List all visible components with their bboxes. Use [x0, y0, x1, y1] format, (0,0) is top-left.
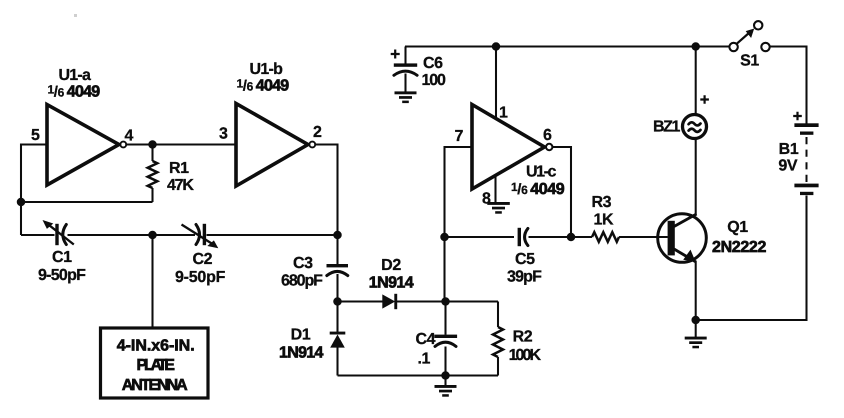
svg-text:C3: C3 [293, 255, 313, 272]
ground below C6 [395, 91, 417, 103]
battery B1 [793, 112, 818, 195]
svg-text:7: 7 [455, 128, 464, 145]
svg-text:1: 1 [499, 105, 508, 122]
wire top supply rail [405, 45, 729, 47]
svg-text:C2: C2 [193, 251, 213, 268]
wire left column pin5 down to C1 row [20, 144, 22, 236]
wire bottom row D1 to R2 [338, 374, 499, 376]
transistor Q1 2N2222 [658, 214, 707, 263]
wire Q1 emitter down [695, 261, 697, 320]
svg-text:5: 5 [31, 127, 40, 144]
node rail pin1 junction [492, 42, 501, 51]
wire U1-c pin7 branch [445, 147, 473, 302]
wire U1-c pin8 stem [494, 175, 496, 203]
svg-text:4-IN.x6-IN.: 4-IN.x6-IN. [117, 338, 195, 355]
wire Q1 ground stem [695, 320, 697, 337]
svg-text:S1: S1 [740, 53, 759, 70]
wire C4 ground stem [444, 376, 446, 386]
label C6 100 [422, 55, 447, 89]
svg-text:9-50pF: 9-50pF [175, 269, 226, 286]
wire R2 branch bottom [497, 357, 499, 376]
svg-text:U1-a: U1-a [59, 67, 92, 84]
svg-text:B1: B1 [779, 141, 799, 158]
svg-text:4: 4 [125, 128, 134, 145]
wire D2 row left [338, 300, 383, 302]
wire U1-a pin5 input [21, 143, 47, 145]
node C4 ground junction [441, 371, 450, 380]
label U1-c [511, 164, 565, 199]
label B1 9V [778, 141, 798, 175]
wire D1 column upper [336, 302, 338, 333]
speck artifact [74, 14, 77, 17]
capacitor C4 [434, 335, 457, 347]
capacitor C3 [327, 264, 349, 276]
label U1-b [237, 61, 290, 95]
wire R2 branch top [497, 302, 499, 328]
node C5 pin7 junction [440, 233, 449, 242]
ground below Q1 emitter [685, 337, 707, 349]
wire BZ1 to Q1 collector [695, 139, 697, 215]
node antenna tap junction [148, 231, 157, 240]
svg-text:1N914: 1N914 [369, 274, 414, 291]
node C2 C3 junction [333, 231, 342, 240]
wire C1 C2 row segment left [21, 234, 55, 236]
label R3 1K [592, 194, 614, 228]
wire R3 right lead to Q1 base [619, 236, 668, 238]
wire C2 row segment right [207, 234, 338, 236]
wire emitter ground row to battery bottom [696, 196, 807, 321]
node D2 C4 junction [441, 297, 450, 306]
wire U1-a output to U1-b input [127, 143, 236, 145]
label R1 47K [167, 160, 194, 194]
svg-text:1/6 4049: 1/6 4049 [511, 180, 565, 198]
wire antenna drop [151, 235, 153, 328]
resistor R2 [493, 327, 503, 357]
node D1 D2 junction [333, 297, 342, 306]
op-amp U1-b inverter triangle [236, 104, 315, 187]
node emitter ground junction [691, 316, 700, 325]
wire U1-c pin1 drop from rail [495, 47, 497, 121]
svg-text:R1: R1 [169, 160, 189, 177]
capacitor C1 variable [43, 220, 74, 245]
capacitor C6 electrolytic [391, 47, 417, 93]
svg-text:6: 6 [543, 127, 552, 144]
wire D2 row right to R2 top [396, 300, 499, 302]
svg-text:1/6 4049: 1/6 4049 [237, 77, 290, 95]
wire D1 column lower [336, 347, 338, 376]
label C4 .1 [416, 331, 436, 368]
svg-text:8: 8 [482, 191, 491, 208]
wire feedback row R1 bottom to left column [21, 201, 153, 203]
label C1 9-50pF [38, 249, 86, 284]
svg-text:R2: R2 [513, 329, 533, 346]
diode D1 1N914 [330, 332, 346, 348]
label C5 39pF [507, 251, 542, 286]
label D2 1N914 [369, 257, 414, 291]
svg-text:U1-c: U1-c [526, 164, 557, 181]
label C3 680pF [281, 255, 323, 290]
resistor R3 [592, 232, 619, 242]
capacitor C2 variable [182, 224, 219, 249]
svg-text:1/6 4049: 1/6 4049 [48, 83, 101, 101]
label D1 1N914 [279, 327, 324, 362]
wire U1-b output to drop column [316, 145, 338, 236]
wire C4 column upper [444, 302, 446, 335]
node rail BZ1 junction [691, 42, 700, 51]
node U1-c output R3 junction [567, 233, 576, 242]
wire R3 left lead [571, 236, 592, 238]
svg-text:39pF: 39pF [507, 269, 542, 286]
antenna plate box [101, 328, 209, 398]
svg-text:D1: D1 [291, 327, 311, 344]
wire C3 column upper [336, 235, 338, 265]
svg-text:680pF: 680pF [281, 273, 323, 290]
label R2 100K [509, 329, 542, 364]
switch S1 [729, 21, 769, 51]
svg-text:.1: .1 [418, 351, 431, 368]
wire C4 column lower [444, 347, 446, 376]
svg-text:9V: 9V [778, 158, 797, 175]
wire U1-c output down [553, 147, 572, 237]
svg-text:1N914: 1N914 [279, 344, 324, 361]
svg-text:3: 3 [219, 126, 228, 143]
svg-text:ANTENNA: ANTENNA [122, 377, 188, 394]
buzzer BZ1 [683, 95, 709, 138]
wire C3 column lower [336, 274, 338, 302]
svg-text:1K: 1K [594, 211, 614, 228]
svg-text:PLATE: PLATE [137, 357, 176, 374]
svg-text:2: 2 [313, 124, 322, 141]
svg-text:C5: C5 [515, 251, 535, 268]
wire C1 C2 row segment middle [68, 234, 196, 236]
ground below U1-c pin8 [487, 202, 510, 214]
node feedback left junction [17, 198, 26, 207]
svg-text:Q1: Q1 [727, 219, 748, 236]
svg-text:BZ1: BZ1 [653, 119, 681, 136]
svg-text:C1: C1 [52, 249, 72, 266]
svg-text:R3: R3 [592, 194, 612, 211]
op-amp U1-c inverter triangle [472, 105, 552, 190]
wire C5 row right of cap [529, 236, 572, 238]
label Q1 2N2222 [712, 219, 767, 256]
svg-text:C4: C4 [416, 331, 436, 348]
svg-text:D2: D2 [381, 257, 401, 274]
wire top rail right of S1 to battery top [770, 47, 807, 124]
op-amp U1-a inverter triangle [47, 105, 126, 186]
svg-text:47K: 47K [167, 177, 194, 194]
node U1-a output junction [148, 140, 157, 149]
resistor R1 [148, 145, 158, 203]
label U1-a [48, 67, 101, 101]
svg-text:100K: 100K [509, 347, 542, 364]
ground below C4 [435, 385, 457, 397]
svg-text:U1-b: U1-b [250, 61, 284, 78]
wire BZ1 top drop from rail [695, 47, 697, 115]
svg-text:C6: C6 [423, 55, 443, 72]
label C2 9-50pF [175, 251, 226, 286]
diode D2 1N914 [382, 294, 397, 309]
svg-text:2N2222: 2N2222 [712, 239, 767, 256]
svg-text:100: 100 [422, 72, 447, 89]
capacitor C5 [518, 228, 528, 246]
svg-text:9-50pF: 9-50pF [38, 267, 86, 284]
wire C5 row left of cap [445, 236, 515, 238]
